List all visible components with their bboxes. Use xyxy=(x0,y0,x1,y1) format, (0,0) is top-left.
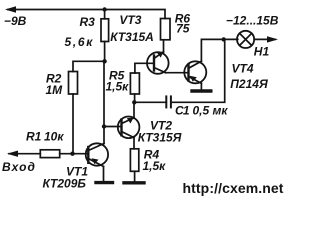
lamp H1 xyxy=(237,31,254,48)
wire: R3 bottom to node A xyxy=(104,42,106,62)
svg-text:Н1: Н1 xyxy=(254,45,270,59)
input arrow (Vkhod) xyxy=(9,153,40,155)
wire: VT1 emitter to ground xyxy=(103,167,105,182)
junction: top rail / R3 xyxy=(102,7,106,11)
svg-text:1,5к: 1,5к xyxy=(106,80,130,94)
wire: node B to C1 left plate xyxy=(134,101,166,103)
wire: VT3 collector to VT4 base xyxy=(166,72,189,74)
wire: VT3 emitter to R6 bottom xyxy=(163,40,165,53)
svg-text:Вход: Вход xyxy=(2,160,36,174)
resistor R4 xyxy=(130,149,138,172)
wire: lamp to +supply arrow xyxy=(254,38,275,40)
junction: node A (R2/R3/VT1 collector) xyxy=(102,59,106,63)
wire: R2 bottom to input node xyxy=(72,94,74,154)
svg-text:75: 75 xyxy=(176,22,190,36)
transistor VT3 xyxy=(147,52,169,74)
resistor R5 xyxy=(130,73,139,94)
ground (VT1 emitter) xyxy=(96,181,113,184)
svg-text:C1: C1 xyxy=(175,104,190,118)
svg-text:10к: 10к xyxy=(44,130,64,144)
svg-text:0,5 мк: 0,5 мк xyxy=(193,104,229,118)
wire: tap to VT2 base xyxy=(104,126,122,128)
svg-text:П214Я: П214Я xyxy=(230,77,268,91)
resistor R3 xyxy=(101,19,109,42)
wire: VT4 collector riser xyxy=(201,39,237,61)
transistor VT2 xyxy=(118,117,140,139)
wire: R5 bottom to node B xyxy=(134,94,136,102)
junction: R2 bottom on base wire xyxy=(70,152,74,156)
svg-text:КТ315А: КТ315А xyxy=(110,30,154,44)
svg-text:КТ315Я: КТ315Я xyxy=(138,131,182,145)
svg-text:КТ209Б: КТ209Б xyxy=(43,177,87,191)
wire: VT4 collector up to lamp wire xyxy=(200,83,202,90)
ground (VT4 emitter) xyxy=(192,89,211,92)
junction: node B (R5/C1/VT2 emitter) xyxy=(132,100,136,104)
resistor R1 xyxy=(40,150,59,158)
resistor R2 xyxy=(69,72,78,95)
wire: C1 right plate to lamp node xyxy=(171,39,225,102)
wire: R5 top to VT3 base xyxy=(135,63,154,73)
junction: lamp node xyxy=(222,37,226,41)
capacitor C1 xyxy=(166,96,171,107)
ground (R4) xyxy=(124,181,144,184)
svg-text:5,6к: 5,6к xyxy=(65,35,95,49)
wire: VT1 collector to node A xyxy=(103,61,105,143)
wire: node A to R2 top xyxy=(73,61,105,71)
junction: VT2 base tap xyxy=(102,124,106,128)
power -9V arrow xyxy=(5,6,16,12)
power -12...15V arrow xyxy=(267,36,278,42)
wire: R4 to ground xyxy=(134,171,136,181)
svg-text:1,5к: 1,5к xyxy=(143,159,167,173)
svg-text:−12...15В: −12...15В xyxy=(226,14,279,28)
svg-text:VT3: VT3 xyxy=(119,13,141,27)
svg-text:R1: R1 xyxy=(26,130,42,144)
wire: rail to R3 top xyxy=(104,10,106,19)
resistor R6 xyxy=(161,19,171,40)
transistor VT1 xyxy=(86,143,108,166)
svg-text:1М: 1М xyxy=(46,83,64,97)
wire: VT2 emitter up to node B xyxy=(133,102,135,118)
svg-text:−9В: −9В xyxy=(4,14,27,28)
wire: -9V top rail xyxy=(8,10,165,19)
transistor VT4 xyxy=(184,61,206,83)
wire: VT2 collector down to R4 xyxy=(133,138,135,149)
svg-text:VT4: VT4 xyxy=(232,62,254,76)
svg-text:R3: R3 xyxy=(80,15,96,29)
wire: R1 to VT1 base xyxy=(60,153,89,155)
svg-text:http://cxem.net: http://cxem.net xyxy=(183,180,284,196)
